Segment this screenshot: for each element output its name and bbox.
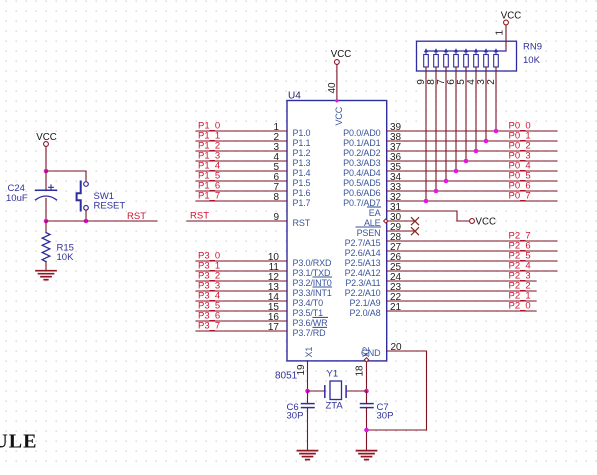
svg-text:P0.0/AD0: P0.0/AD0 <box>343 128 380 138</box>
svg-text:RST: RST <box>190 211 209 222</box>
wire P0 row 181 <box>387 180 557 182</box>
resistor network RN9 box <box>417 41 517 71</box>
svg-text:VCC: VCC <box>334 106 344 125</box>
svg-text:EA: EA <box>369 208 381 218</box>
wire P2 row 261 <box>387 260 557 262</box>
pin 12 P3.2/INT0 wire <box>196 280 287 282</box>
svg-text:X1: X1 <box>304 347 314 358</box>
svg-text:VCC: VCC <box>476 217 496 228</box>
svg-text:P2.0/A8: P2.0/A8 <box>350 308 381 318</box>
wire P2 row 301 <box>387 300 536 302</box>
svg-text:P1.2: P1.2 <box>293 148 311 158</box>
wire P2 row 311 <box>387 310 536 312</box>
svg-text:RESET: RESET <box>94 201 126 212</box>
wire P2 row 291 <box>387 290 536 292</box>
svg-text:P2.2/A10: P2.2/A10 <box>345 288 381 298</box>
svg-text:ZTA: ZTA <box>326 401 344 412</box>
wire VCC to RN9 pin 1 <box>505 25 507 51</box>
RN9 common bus <box>426 50 506 52</box>
svg-text:P0.5/AD5: P0.5/AD5 <box>343 178 380 188</box>
svg-text:10uF: 10uF <box>6 193 28 204</box>
capacitor C6 <box>307 391 309 404</box>
svg-text:P0.6/AD6: P0.6/AD6 <box>343 188 380 198</box>
wire pin 18 (X2) down <box>366 363 368 391</box>
pin 15 P3.5/T1 wire <box>196 310 287 312</box>
ground (C6) <box>298 450 318 452</box>
svg-text:Y1: Y1 <box>327 369 339 380</box>
resistor RN9 element pin 7 <box>445 51 447 55</box>
svg-text:P2.1/A9: P2.1/A9 <box>350 298 381 308</box>
pin 14 P3.4/T0 wire <box>196 300 287 302</box>
svg-text:P3_7: P3_7 <box>198 321 220 332</box>
svg-text:RST: RST <box>293 218 311 228</box>
svg-text:P3.4/T0: P3.4/T0 <box>293 298 324 308</box>
resistor RN9 element pin 2 <box>495 51 497 55</box>
svg-text:P1.0: P1.0 <box>293 128 311 138</box>
no-ERC diamond pin 18 <box>364 358 368 362</box>
node C junction <box>84 219 89 224</box>
wire ALE stub <box>388 220 414 222</box>
node A junction <box>44 169 49 174</box>
wire P0 row 201 <box>387 200 557 202</box>
overbar RD <box>313 326 327 328</box>
wire P0 row 161 <box>387 160 557 162</box>
overbar PSEN <box>356 226 381 228</box>
svg-text:PSEN: PSEN <box>357 228 381 238</box>
wire PSEN stub <box>387 230 414 232</box>
crystal Y1 <box>324 386 326 398</box>
svg-text:1: 1 <box>495 30 506 36</box>
power port VCC (pin 40) <box>335 60 340 65</box>
svg-text:P1.3: P1.3 <box>293 158 311 168</box>
capacitor C7 <box>366 391 368 404</box>
resistor RN9 element pin 5 <box>465 51 467 55</box>
overbar EA <box>368 206 381 208</box>
svg-text:P3.5/T1: P3.5/T1 <box>293 308 324 318</box>
svg-text:P3.7/RD: P3.7/RD <box>293 328 327 338</box>
wire P0 row 151 <box>387 150 557 152</box>
svg-text:P0.1/AD1: P0.1/AD1 <box>343 138 380 148</box>
svg-text:17: 17 <box>268 322 280 333</box>
power port VCC (RN9) <box>504 20 509 25</box>
pin 10 P3.0/RXD wire <box>196 260 287 262</box>
svg-text:30P: 30P <box>287 411 304 422</box>
pin 16 P3.6/WR wire <box>196 320 287 322</box>
svg-text:P2.5/A13: P2.5/A13 <box>345 258 381 268</box>
ground (C7) <box>357 450 377 452</box>
svg-text:P2_0: P2_0 <box>509 301 531 312</box>
wire RN9 pin 6 to P0 row <box>455 67 457 171</box>
junction RN9-7 <box>444 179 449 184</box>
svg-text:VCC: VCC <box>36 132 56 143</box>
wire R15 to ground <box>45 262 47 271</box>
no-ERC X (ALE) <box>411 218 418 225</box>
wire crystal to X2 <box>346 390 366 392</box>
wire P0 row 191 <box>387 190 557 192</box>
power port VCC (left) <box>44 142 49 147</box>
pin 11 P3.1/TXD wire <box>196 270 287 272</box>
resistor RN9 element pin 6 <box>455 51 457 55</box>
svg-text:P1.4: P1.4 <box>293 168 311 178</box>
svg-text:VCC: VCC <box>331 49 351 60</box>
pin 1 P1.0 wire <box>196 130 287 132</box>
svg-text:40: 40 <box>327 82 338 94</box>
resistor RN9 element pin 9 <box>425 51 427 55</box>
wire X1 to crystal <box>308 390 325 392</box>
switch SW1 <box>84 182 89 187</box>
svg-text:P3.6/WR: P3.6/WR <box>293 318 329 328</box>
junction RN9-5 <box>464 159 469 164</box>
wire P0 row 131 <box>387 130 557 132</box>
svg-text:P2.3/A11: P2.3/A11 <box>345 278 380 288</box>
pin 5 P1.4 wire <box>196 170 287 172</box>
junction RN9-9 <box>424 199 429 204</box>
wire RN9 pin 4 to P0 row <box>475 67 477 151</box>
wire RN9 pin 5 to P0 row <box>465 67 467 161</box>
op-amp U4 body (8051 MCU) <box>287 101 387 361</box>
pin 2 P1.1 wire <box>196 140 287 142</box>
junction RN9-2 <box>494 129 499 134</box>
pin 3 P1.2 wire <box>196 150 287 152</box>
wire P0 row 171 <box>387 170 557 172</box>
wire RN9 pin 7 to P0 row <box>445 67 447 181</box>
svg-text:P1.5: P1.5 <box>293 178 311 188</box>
svg-text:9: 9 <box>273 212 279 223</box>
pin 7 P1.6 wire <box>196 190 287 192</box>
svg-text:P3.3/INT1: P3.3/INT1 <box>293 288 332 298</box>
svg-text:P0.2/AD2: P0.2/AD2 <box>343 148 380 158</box>
overbar WR <box>313 316 328 318</box>
svg-text:P1_7: P1_7 <box>198 191 220 202</box>
junction RN9-8 <box>434 189 439 194</box>
svg-text:X2: X2 <box>361 347 371 358</box>
svg-text:8: 8 <box>273 192 279 203</box>
resistor R15 <box>45 221 47 233</box>
svg-text:P0.4/AD4: P0.4/AD4 <box>343 168 380 178</box>
node X1 junction <box>305 389 310 394</box>
junction RN9-4 <box>474 149 479 154</box>
no-ERC diamond pin 30 <box>384 219 388 223</box>
svg-text:10K: 10K <box>57 252 75 263</box>
svg-text:VCC: VCC <box>501 10 521 21</box>
ground (R15) <box>36 270 56 272</box>
overbar INT1 <box>313 286 332 288</box>
junction RN9-6 <box>454 169 459 174</box>
svg-text:RST: RST <box>127 211 146 222</box>
wire pin 40 <box>336 65 338 101</box>
svg-text:19: 19 <box>296 364 307 376</box>
power port VCC (EA) <box>470 219 475 224</box>
wire RN9 pin 3 to P0 row <box>485 67 487 141</box>
no-ERC X (PSEN) <box>411 228 418 235</box>
pin 9 RST wire <box>187 220 287 222</box>
svg-text:8051: 8051 <box>275 371 298 382</box>
wire node A to SW1 top <box>46 171 86 182</box>
wire P2 row 241 <box>387 240 557 242</box>
node B junction <box>44 219 49 224</box>
wire C6 to ground <box>307 408 309 450</box>
overbar INT0 <box>313 276 332 278</box>
svg-text:RN9: RN9 <box>523 42 542 53</box>
svg-text:18: 18 <box>354 365 365 377</box>
resistor RN9 element pin 3 <box>485 51 487 55</box>
pin 17 P3.7/RD wire <box>196 330 287 332</box>
wire RST (left) <box>46 220 157 222</box>
svg-text:P1.1: P1.1 <box>293 138 311 148</box>
wire EA to VCC <box>387 211 470 221</box>
svg-text:U4: U4 <box>288 91 301 102</box>
pin 4 P1.3 wire <box>196 160 287 162</box>
svg-text:P1.6: P1.6 <box>293 188 311 198</box>
svg-text:P2.4/A12: P2.4/A12 <box>345 268 381 278</box>
wire RN9 pin 8 to P0 row <box>435 67 437 191</box>
junction RN9-3 <box>484 139 489 144</box>
wire pin 20 to C7 bottom <box>367 351 427 430</box>
wire RN9 pin 9 to P0 row <box>425 67 427 201</box>
svg-text:2: 2 <box>486 79 497 85</box>
svg-text:10K: 10K <box>523 55 541 66</box>
wire C7 to ground <box>366 408 368 450</box>
junction pin 40 at chip edge <box>335 99 338 102</box>
wire C24 to node B <box>45 199 47 222</box>
svg-text:ULE: ULE <box>0 431 38 453</box>
svg-text:30P: 30P <box>377 411 394 422</box>
wire P0 row 141 <box>387 140 557 142</box>
svg-text:P0_7: P0_7 <box>509 191 531 202</box>
svg-text:P2.7/A15: P2.7/A15 <box>345 238 381 248</box>
resistor RN9 element pin 4 <box>475 51 477 55</box>
svg-text:P3.0/RXD: P3.0/RXD <box>293 258 332 268</box>
wire P2 row 271 <box>387 270 557 272</box>
svg-text:P1.7: P1.7 <box>293 198 311 208</box>
pin 13 P3.3/INT1 wire <box>196 290 287 292</box>
node X2 junction <box>364 389 369 394</box>
pin 8 P1.7 wire <box>196 200 287 202</box>
wire RN9 pin 2 to P0 row <box>495 67 497 131</box>
wire P2 row 281 <box>387 280 536 282</box>
svg-text:P0.3/AD3: P0.3/AD3 <box>343 158 380 168</box>
pin 6 P1.5 wire <box>196 180 287 182</box>
wire VCC to node A <box>45 147 47 172</box>
resistor RN9 element pin 8 <box>435 51 437 55</box>
svg-text:P2.6/A14: P2.6/A14 <box>345 248 381 258</box>
wire P2 row 251 <box>387 250 557 252</box>
wire pin 19 (X1) down <box>307 361 309 391</box>
wire SW1 bottom to node C <box>85 210 87 221</box>
node C7/pin20 junction <box>364 428 369 433</box>
capacitor C24 <box>45 171 47 190</box>
